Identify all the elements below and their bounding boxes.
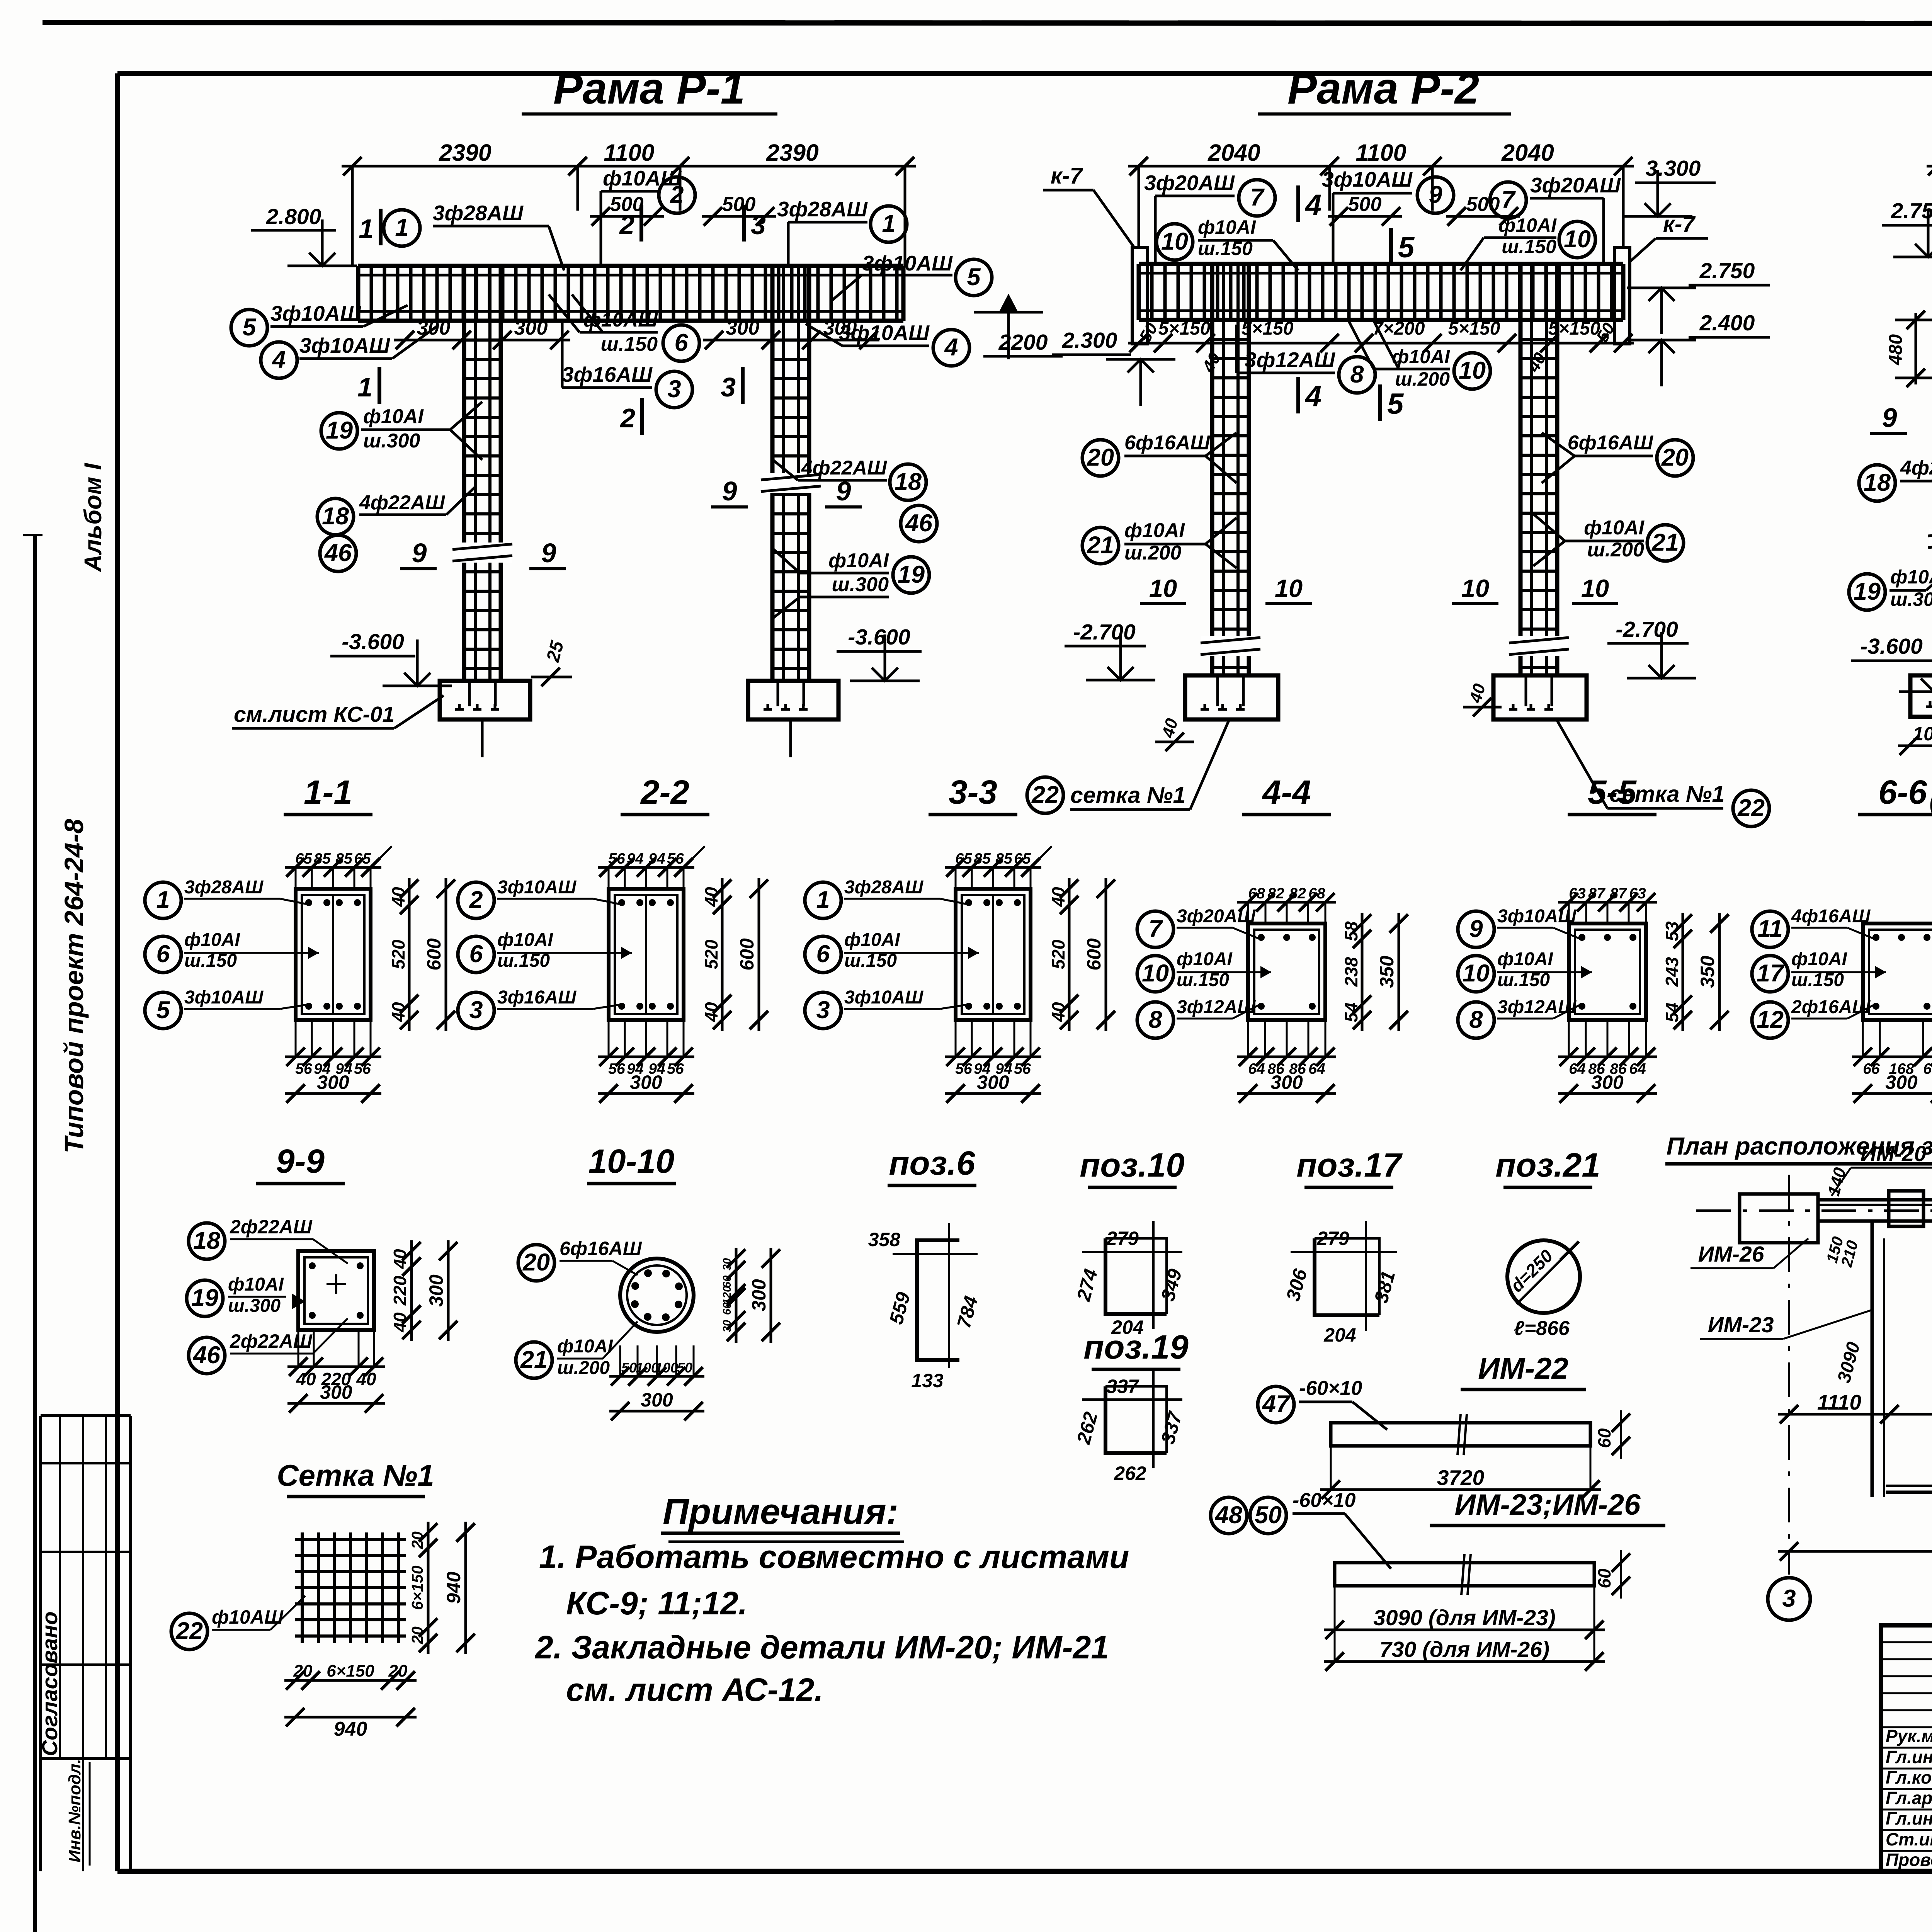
svg-text:к-7: к-7: [1051, 163, 1084, 189]
title block frame: [1881, 1625, 1932, 1871]
svg-text:3ф10АШ: 3ф10АШ: [270, 301, 361, 325]
svg-text:ИМ-26: ИМ-26: [1698, 1242, 1764, 1267]
Р-2 left column: [1210, 265, 1214, 675]
Р-2 label circle 9 3ф10АШ: [1417, 177, 1454, 213]
inner frame top: [117, 71, 1932, 76]
svg-text:9: 9: [412, 538, 427, 568]
svg-text:66: 66: [1863, 1061, 1880, 1077]
svg-text:10-10: 10-10: [588, 1143, 675, 1180]
svg-text:10: 10: [1463, 960, 1490, 987]
svg-text:3ф12АШ: 3ф12АШ: [1177, 997, 1256, 1017]
план bottom bar ИМ-22: [1886, 1491, 1932, 1494]
svg-text:8: 8: [1469, 1006, 1483, 1033]
svg-text:56: 56: [955, 1061, 972, 1077]
Р-1 left foundation: [440, 681, 530, 719]
Р-3 dims 100 200 bottom: [1898, 745, 1932, 747]
svg-text:3ф28АШ: 3ф28АШ: [433, 201, 524, 225]
svg-text:56: 56: [295, 1061, 312, 1077]
поз.19 shape: [1105, 1386, 1167, 1453]
svg-text:10: 10: [1275, 574, 1303, 602]
Р-2 сетка №1 label left: [1027, 777, 1063, 813]
svg-text:ф10АI: ф10АI: [828, 549, 889, 572]
svg-text:3ф10АШ: 3ф10АШ: [839, 321, 930, 345]
Р-2 label circle 10 left ф10АI ш.150: [1156, 224, 1193, 260]
svg-text:Гл.арх.пр.: Гл.арх.пр.: [1886, 1788, 1932, 1808]
svg-text:1110: 1110: [1817, 1390, 1862, 1414]
svg-text:ф10АI: ф10АI: [1791, 949, 1848, 969]
план axis horizontal dashed: [1696, 1209, 1932, 1212]
svg-text:63: 63: [1629, 885, 1646, 902]
svg-text:58: 58: [1341, 921, 1361, 941]
svg-text:300: 300: [1885, 1071, 1918, 1093]
ИМ-23 circles 48 50: [1211, 1497, 1247, 1534]
svg-text:Провер: Провер: [1886, 1850, 1932, 1870]
svg-text:11: 11: [1757, 915, 1782, 942]
svg-text:87: 87: [1588, 885, 1606, 902]
план left pad: [1740, 1194, 1818, 1243]
Р-1 label circle 46 right: [901, 505, 937, 542]
Р-2 spacing row under beam: [1128, 342, 1634, 345]
svg-text:3: 3: [721, 372, 736, 402]
svg-text:85: 85: [995, 850, 1013, 867]
section 9-9: [298, 1251, 374, 1330]
svg-text:8: 8: [1350, 361, 1364, 388]
svg-text:18: 18: [193, 1227, 220, 1254]
svg-text:5-5: 5-5: [1588, 774, 1637, 811]
svg-text:3ф10АШ: 3ф10АШ: [299, 333, 390, 357]
svg-text:4ф22АШ: 4ф22АШ: [1900, 457, 1932, 479]
svg-text:1: 1: [359, 214, 374, 244]
svg-text:1: 1: [357, 372, 372, 402]
Р-2 left end plate К-7: [1132, 247, 1148, 344]
Р-2 right foundation: [1493, 675, 1587, 719]
svg-text:66: 66: [1923, 1061, 1932, 1077]
svg-text:10: 10: [1581, 574, 1609, 602]
Р-2 left foundation: [1185, 675, 1278, 719]
Р-1 right foundation: [748, 681, 838, 719]
Р-2 label circle 7 right 3ф20АШ: [1490, 182, 1526, 218]
Р-2 label circle 20 left 6ф16АШ: [1082, 440, 1119, 476]
svg-text:Рама Р-2: Рама Р-2: [1287, 64, 1479, 113]
svg-text:2.800: 2.800: [266, 204, 321, 229]
svg-text:2.750: 2.750: [1699, 259, 1755, 283]
Р-2 label circle 10 right ф10АI ш.150: [1559, 221, 1595, 258]
svg-text:4: 4: [271, 346, 286, 373]
svg-text:64: 64: [1569, 1061, 1586, 1077]
svg-text:-2.700: -2.700: [1616, 617, 1678, 642]
Р-2 right end plate К-7: [1614, 247, 1630, 344]
svg-text:94: 94: [627, 850, 644, 867]
svg-text:133: 133: [911, 1370, 944, 1391]
svg-text:279: 279: [1316, 1228, 1349, 1249]
svg-text:500: 500: [722, 193, 756, 216]
Р-2 label circle 8 3ф12АШ: [1339, 357, 1375, 393]
Сетка №1 grid: [301, 1532, 304, 1643]
svg-text:40: 40: [1048, 887, 1068, 907]
svg-text:40: 40: [390, 1249, 410, 1269]
Р-1 right column: [770, 267, 775, 681]
svg-text:ф10АI: ф10АI: [363, 405, 424, 428]
svg-text:20: 20: [408, 1626, 426, 1645]
план dim 6000: [1778, 1550, 1932, 1553]
svg-text:ф10АI: ф10АI: [1177, 949, 1233, 969]
svg-text:22: 22: [1737, 794, 1765, 821]
svg-text:-3.600: -3.600: [342, 629, 404, 654]
svg-text:3ф10АШ: 3ф10АШ: [184, 987, 264, 1008]
svg-text:Гл.инж.м.: Гл.инж.м.: [1886, 1747, 1932, 1767]
Р-3 left foundation: [1910, 675, 1932, 717]
svg-text:1. Работать совместно с лист: 1. Работать совместно с листами: [539, 1539, 1129, 1575]
svg-text:5: 5: [1387, 388, 1404, 420]
svg-text:21: 21: [1087, 532, 1114, 559]
svg-text:56: 56: [667, 1061, 684, 1077]
svg-text:поз.21: поз.21: [1495, 1146, 1600, 1184]
поз.6 channel shape: [917, 1240, 959, 1360]
svg-text:10: 10: [1149, 574, 1177, 602]
svg-text:КС-9; 11;12.: КС-9; 11;12.: [566, 1585, 747, 1621]
Р-1 label circle 2 ф10АШ: [659, 177, 695, 213]
svg-text:87: 87: [1610, 885, 1628, 902]
Р-1 cut marks bottom: [378, 367, 381, 404]
svg-text:6: 6: [816, 940, 830, 968]
svg-text:100: 100: [655, 1360, 678, 1376]
svg-text:300: 300: [1270, 1071, 1303, 1093]
svg-text:6ф16АШ: 6ф16АШ: [560, 1238, 642, 1259]
svg-text:3: 3: [667, 376, 681, 403]
svg-text:337: 337: [1106, 1376, 1139, 1397]
svg-text:3: 3: [1782, 1585, 1796, 1612]
Р-1 label circle 3 3ф16АШ: [656, 371, 692, 408]
svg-text:2040: 2040: [1207, 139, 1260, 166]
svg-text:4-4: 4-4: [1262, 774, 1311, 811]
svg-text:19: 19: [1854, 578, 1881, 605]
svg-text:ш.300: ш.300: [363, 430, 420, 452]
svg-text:Гл.инж.пр: Гл.инж.пр: [1886, 1808, 1932, 1828]
svg-text:10: 10: [1461, 574, 1489, 602]
svg-text:350: 350: [1697, 956, 1718, 988]
svg-text:12: 12: [1757, 1006, 1784, 1033]
svg-text:2: 2: [469, 886, 483, 913]
план axis circle 3: [1768, 1578, 1810, 1620]
Сетка №1 bottom dims: [284, 1679, 417, 1682]
svg-text:85: 85: [974, 850, 991, 867]
svg-text:56: 56: [354, 1061, 371, 1077]
svg-text:600: 600: [736, 938, 758, 971]
svg-text:500: 500: [610, 193, 644, 216]
план dims 1110 3780 1110: [1778, 1413, 1932, 1416]
svg-text:-3.600: -3.600: [848, 625, 910, 650]
svg-text:68: 68: [1308, 885, 1325, 902]
Р-2 label circle 10 mid ф10АI ш.200: [1454, 353, 1490, 389]
svg-text:7: 7: [1501, 186, 1516, 213]
svg-text:10: 10: [1161, 228, 1188, 255]
svg-text:-2.700: -2.700: [1073, 620, 1136, 645]
svg-text:300: 300: [320, 1381, 352, 1403]
svg-text:Ст.инж.: Ст.инж.: [1886, 1829, 1932, 1849]
svg-text:64: 64: [1629, 1061, 1646, 1077]
svg-text:6: 6: [469, 940, 483, 968]
svg-text:46: 46: [905, 510, 933, 537]
svg-text:ИМ-23: ИМ-23: [1708, 1313, 1774, 1337]
svg-text:238: 238: [1341, 957, 1361, 987]
svg-text:100: 100: [1913, 723, 1932, 745]
svg-text:1: 1: [395, 214, 408, 241]
svg-text:ф10АI: ф10АI: [184, 930, 241, 950]
svg-text:сетка №1: сетка №1: [1070, 782, 1185, 808]
svg-text:ф10АI: ф10АI: [1124, 519, 1185, 542]
svg-text:520: 520: [701, 939, 721, 969]
svg-text:7: 7: [1250, 184, 1265, 211]
svg-text:50: 50: [621, 1360, 637, 1376]
svg-text:2. Закладные детали ИМ-20; И: 2. Закладные детали ИМ-20; ИМ-21: [534, 1629, 1109, 1665]
svg-text:300: 300: [317, 1071, 349, 1093]
svg-text:10: 10: [1142, 960, 1169, 987]
svg-text:1-1: 1-1: [304, 774, 352, 811]
svg-text:358: 358: [868, 1229, 901, 1250]
svg-text:9: 9: [541, 538, 556, 568]
svg-text:40: 40: [701, 887, 721, 907]
svg-text:56: 56: [1014, 1061, 1031, 1077]
margin stamp table: [39, 1416, 42, 1871]
svg-text:9: 9: [1469, 915, 1483, 942]
svg-text:3ф10АШ: 3ф10АШ: [497, 877, 577, 898]
svg-text:5×150: 5×150: [1242, 318, 1294, 339]
svg-text:47: 47: [1262, 1391, 1291, 1418]
svg-text:Гл.констр.: Гл.констр.: [1886, 1767, 1932, 1787]
svg-text:поз.17: поз.17: [1296, 1146, 1403, 1184]
Сетка №1 right dims: [427, 1522, 430, 1654]
svg-text:-60×10: -60×10: [1293, 1489, 1355, 1512]
svg-text:300: 300: [425, 1274, 447, 1307]
svg-text:Рама Р-1: Рама Р-1: [553, 64, 745, 113]
svg-text:40: 40: [388, 1002, 408, 1022]
Р-2 label circle 7 left 3ф20АШ: [1239, 180, 1275, 216]
svg-text:-60×10: -60×10: [1299, 1377, 1362, 1400]
svg-text:3ф10АШ: 3ф10АШ: [1497, 906, 1577, 927]
svg-text:50: 50: [1255, 1502, 1282, 1529]
svg-text:-3.600: -3.600: [1860, 634, 1923, 659]
svg-text:3: 3: [469, 997, 483, 1024]
Р-2 label circle 20 right 6ф16АШ: [1657, 440, 1693, 476]
svg-text:2: 2: [619, 403, 635, 433]
svg-text:4: 4: [1304, 380, 1321, 413]
svg-text:4: 4: [944, 334, 958, 361]
svg-text:82: 82: [1289, 885, 1306, 902]
svg-text:ф10АI: ф10АI: [497, 930, 554, 950]
Р-2 beam: [1139, 262, 1623, 266]
Р-2 right column: [1519, 265, 1523, 675]
svg-text:3ф28АШ: 3ф28АШ: [184, 877, 264, 898]
svg-text:94: 94: [648, 850, 665, 867]
svg-text:2200: 2200: [998, 330, 1048, 355]
svg-text:20: 20: [293, 1662, 313, 1680]
svg-text:65: 65: [295, 850, 313, 867]
svg-text:500: 500: [1348, 193, 1382, 216]
svg-text:1: 1: [156, 886, 170, 913]
svg-text:65: 65: [1014, 850, 1031, 867]
ИМ-23 plate: [1335, 1563, 1594, 1586]
svg-text:300: 300: [748, 1279, 770, 1311]
svg-text:5×150: 5×150: [1448, 318, 1500, 339]
Р-1 label circle 1 right 3ф28АШ: [871, 206, 907, 242]
Р-2 label circle 21 left ф10АI ш.200: [1082, 527, 1119, 564]
svg-text:19: 19: [326, 417, 353, 444]
Р-1 label circle 6 ф10АШ ш.150: [663, 325, 699, 361]
svg-text:Сетка №1: Сетка №1: [277, 1458, 434, 1492]
svg-text:64: 64: [1248, 1061, 1265, 1077]
svg-text:64: 64: [1308, 1061, 1325, 1077]
svg-text:2.750: 2.750: [1891, 199, 1932, 223]
svg-text:300: 300: [514, 317, 548, 339]
svg-text:56: 56: [608, 850, 625, 867]
svg-text:см. лист АС-12.: см. лист АС-12.: [566, 1672, 823, 1708]
svg-text:9: 9: [1882, 403, 1897, 433]
svg-text:30: 30: [721, 1258, 733, 1270]
svg-text:4ф22АШ: 4ф22АШ: [359, 492, 445, 514]
svg-text:17: 17: [1757, 960, 1785, 987]
Р-1 dims 300 under beam: [394, 339, 473, 342]
svg-text:ш.300: ш.300: [228, 1296, 281, 1316]
Р-1 label circle 19 left ф10АI ш.300: [321, 413, 357, 449]
ИМ-22 dim 3720: [1320, 1488, 1601, 1491]
svg-text:54: 54: [1662, 1002, 1682, 1022]
svg-text:300: 300: [1591, 1071, 1624, 1093]
svg-text:ф10АI: ф10АI: [1498, 214, 1557, 236]
svg-text:21: 21: [1651, 529, 1679, 556]
svg-text:600: 600: [423, 938, 445, 971]
svg-text:9: 9: [722, 476, 737, 506]
svg-text:6×150: 6×150: [327, 1662, 374, 1680]
svg-text:300: 300: [641, 1389, 673, 1411]
svg-text:ИМ-20: ИМ-20: [1861, 1141, 1927, 1166]
svg-text:65: 65: [354, 850, 371, 867]
ИМ-22 plate: [1331, 1423, 1590, 1446]
svg-text:300: 300: [630, 1071, 662, 1093]
svg-text:20: 20: [1087, 444, 1114, 471]
svg-text:6: 6: [156, 940, 170, 968]
svg-text:5: 5: [156, 997, 170, 1024]
svg-text:3ф12АШ: 3ф12АШ: [1245, 348, 1335, 372]
svg-text:40: 40: [701, 1002, 721, 1022]
Р-1 dim 500 500: [590, 215, 664, 218]
svg-text:ш.200: ш.200: [557, 1358, 610, 1378]
svg-text:3ф20АШ: 3ф20АШ: [1530, 173, 1621, 197]
svg-text:ИМ-23;ИМ-26: ИМ-23;ИМ-26: [1455, 1488, 1641, 1521]
svg-text:18: 18: [322, 503, 349, 530]
svg-text:3-3: 3-3: [949, 774, 997, 811]
svg-text:22: 22: [1031, 781, 1059, 808]
svg-text:940: 940: [443, 1571, 464, 1604]
план top bar ИМ-20/21: [1818, 1198, 1932, 1202]
svg-text:262: 262: [1114, 1463, 1146, 1484]
svg-text:300: 300: [977, 1071, 1009, 1093]
Р-1 left column: [462, 267, 466, 681]
svg-text:21: 21: [520, 1346, 548, 1373]
svg-text:2.400: 2.400: [1699, 311, 1755, 335]
svg-text:85: 85: [335, 850, 353, 867]
svg-text:20: 20: [1661, 444, 1689, 471]
svg-text:18: 18: [1864, 469, 1891, 496]
svg-text:2390: 2390: [766, 139, 819, 166]
svg-text:2390: 2390: [439, 139, 492, 166]
inner frame bottom: [117, 1869, 1932, 1874]
svg-text:1100: 1100: [1355, 139, 1406, 166]
Р-1 level mark 2.800: [309, 253, 335, 266]
svg-text:Рук.маст: Рук.маст: [1886, 1726, 1932, 1746]
Р-3 top dimension 1570/1420/3320: [1927, 165, 1932, 168]
svg-text:ф10АI: ф10АI: [557, 1336, 614, 1357]
svg-text:1100: 1100: [604, 139, 654, 166]
svg-text:2-2: 2-2: [640, 774, 689, 811]
Р-3 label circle 19 ф10АI ш.300: [1849, 574, 1885, 610]
svg-text:40: 40: [390, 1312, 410, 1333]
svg-text:2ф22АШ: 2ф22АШ: [230, 1216, 313, 1238]
svg-text:2040: 2040: [1501, 139, 1554, 166]
svg-text:3ф28АШ: 3ф28АШ: [777, 197, 868, 221]
svg-text:300: 300: [726, 317, 760, 339]
svg-text:19: 19: [191, 1284, 218, 1311]
план left vertical ИМ-23: [1871, 1221, 1874, 1497]
svg-text:2ф16АШ: 2ф16АШ: [1791, 997, 1871, 1017]
Р-2 label circle 21 right ф10АI ш.200: [1647, 525, 1684, 561]
svg-text:ш.150: ш.150: [601, 333, 658, 355]
svg-text:ИМ-22: ИМ-22: [1478, 1351, 1568, 1385]
svg-text:46: 46: [192, 1342, 221, 1369]
Р-1 beam: [358, 264, 903, 268]
sheet outer left border: [33, 535, 37, 1932]
svg-text:ф10АI: ф10АI: [844, 930, 901, 950]
Р-3 dim 480 left: [1915, 313, 1917, 384]
svg-text:Согласовано: Согласовано: [37, 1611, 62, 1756]
svg-text:520: 520: [388, 939, 408, 969]
svg-text:Примечания:: Примечания:: [663, 1491, 898, 1532]
svg-text:48: 48: [1214, 1502, 1242, 1529]
svg-text:19: 19: [898, 561, 925, 588]
svg-text:1: 1: [882, 210, 895, 237]
svg-text:18: 18: [895, 468, 922, 495]
svg-text:3ф16АШ: 3ф16АШ: [562, 362, 653, 386]
svg-text:10: 10: [1564, 226, 1591, 253]
svg-text:54: 54: [1341, 1002, 1361, 1022]
svg-text:ф10АШ: ф10АШ: [603, 166, 682, 190]
svg-text:85: 85: [314, 850, 331, 867]
svg-text:3090 (для ИМ-23): 3090 (для ИМ-23): [1373, 1605, 1556, 1630]
svg-text:Инв.№подл.: Инв.№подл.: [65, 1759, 84, 1862]
svg-text:4ф16АШ: 4ф16АШ: [1791, 906, 1871, 927]
Р-2 top dimension 2040/1100/2040: [1128, 165, 1634, 168]
svg-text:ф10АI: ф10АI: [228, 1274, 284, 1295]
svg-text:7: 7: [1148, 915, 1163, 942]
svg-text:68: 68: [1248, 885, 1265, 902]
Р-1 label circle 19 right ф10АI ш.300: [893, 557, 929, 593]
svg-text:ф10АI: ф10АI: [1497, 949, 1554, 969]
svg-text:520: 520: [1048, 939, 1068, 969]
svg-text:10: 10: [1459, 357, 1486, 384]
svg-text:22: 22: [175, 1617, 203, 1645]
svg-text:279: 279: [1106, 1228, 1139, 1249]
svg-text:50: 50: [677, 1360, 692, 1376]
svg-text:3ф16АШ: 3ф16АШ: [497, 987, 577, 1008]
svg-text:730 (для ИМ-26): 730 (для ИМ-26): [1379, 1637, 1549, 1662]
svg-text:ш.300: ш.300: [832, 573, 889, 596]
svg-text:4ф22АШ: 4ф22АШ: [801, 457, 887, 479]
Р-1 label circle 4 left 3ф10АШ: [261, 342, 297, 378]
svg-text:3ф12АШ: 3ф12АШ: [1497, 997, 1577, 1017]
Сетка №1 circle 22 label: [171, 1613, 207, 1650]
svg-text:3ф28АШ: 3ф28АШ: [844, 877, 923, 898]
svg-text:60: 60: [721, 1303, 733, 1315]
Р-1 label circle 18 left 4ф22АШ: [317, 498, 354, 535]
